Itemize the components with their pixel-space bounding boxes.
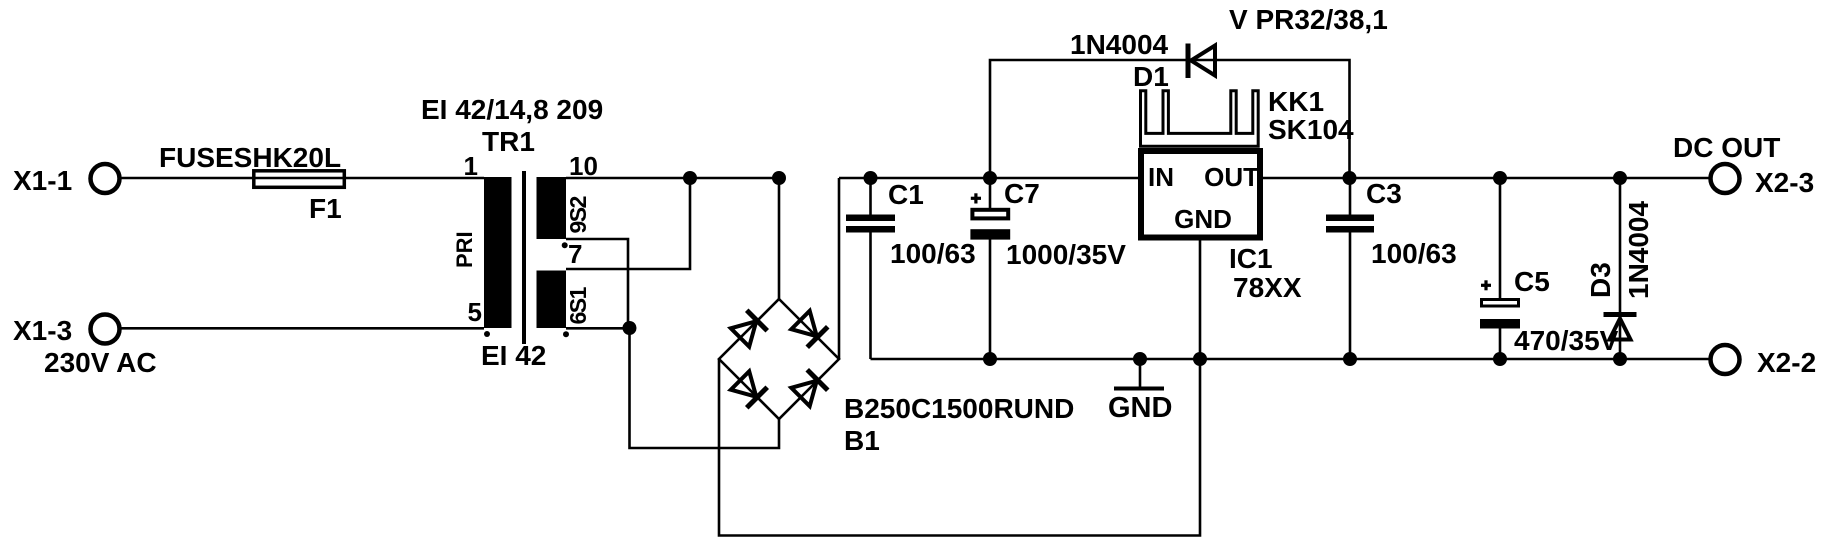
svg-text:EI 42/14,8 209: EI 42/14,8 209: [421, 94, 603, 125]
svg-text:C5: C5: [1514, 266, 1550, 297]
svg-text:V PR32/38,1: V PR32/38,1: [1229, 4, 1388, 35]
heatsink KK1: [1141, 86, 1355, 146]
svg-text:IC1: IC1: [1229, 243, 1273, 274]
terminal X2-2: [1711, 345, 1817, 378]
svg-text:OUT: OUT: [1204, 162, 1259, 192]
svg-text:D3: D3: [1585, 262, 1616, 298]
wire pin7: [566, 178, 690, 269]
svg-text:1N4004: 1N4004: [1623, 200, 1654, 299]
junction D3 top: [1613, 171, 1627, 185]
junction bridge top: [772, 171, 786, 185]
bridge diode upper-left: [730, 310, 767, 347]
diode D3 wire: [1619, 178, 1622, 359]
svg-text:EI 42: EI 42: [481, 340, 546, 371]
svg-text:F1: F1: [309, 193, 342, 224]
svg-text:GND: GND: [1108, 392, 1172, 424]
svg-text:X1-1: X1-1: [13, 165, 72, 196]
bridge diode upper-right: [790, 310, 827, 347]
junction C5 bottom: [1493, 352, 1507, 366]
wire X1-3 to TR1 pin5: [121, 327, 484, 330]
TR1 secondary winding S2: [537, 177, 567, 239]
svg-text:9S2: 9S2: [565, 196, 591, 233]
wire X1-1 to fuse to TR1 pin1: [121, 177, 484, 180]
ground rail: [871, 358, 1710, 361]
svg-text:SK104: SK104: [1268, 114, 1354, 145]
transformer TR1: [421, 94, 603, 371]
terminal X1-1: [13, 164, 120, 196]
svg-text:1N4004: 1N4004: [1070, 29, 1169, 60]
bridge diode lower-left: [730, 370, 767, 407]
junction D3 bottom: [1613, 352, 1627, 366]
svg-text:PRI: PRI: [452, 231, 477, 268]
capacitor C1: [846, 178, 976, 359]
svg-text:GND: GND: [1174, 204, 1232, 234]
regulator IC1: [1141, 151, 1302, 303]
junction C5 top: [1493, 171, 1507, 185]
bridge diode lower-right: [790, 370, 827, 407]
svg-text:10: 10: [569, 151, 598, 181]
svg-text:B1: B1: [844, 425, 880, 456]
svg-text:1: 1: [464, 151, 478, 181]
svg-text:100/63: 100/63: [890, 238, 976, 269]
terminal X1-3: [13, 315, 157, 379]
capacitor C7: [970, 178, 1126, 359]
diode D3: [1585, 200, 1654, 339]
wire pin6: [566, 327, 630, 330]
TR1 primary winding: [484, 177, 512, 328]
svg-text:6S1: 6S1: [565, 286, 591, 324]
wire DC+ rail to IC IN: [839, 177, 1138, 180]
svg-text:IN: IN: [1148, 162, 1174, 192]
svg-text:X2-3: X2-3: [1755, 167, 1814, 198]
wire IC1 GND lead: [1199, 240, 1202, 359]
ground symbol: [1108, 359, 1172, 424]
bridge rectifier B1 diamond: [719, 299, 839, 419]
junction C1 top: [864, 171, 878, 185]
svg-text:1000/35V: 1000/35V: [1006, 239, 1126, 270]
svg-text:D1: D1: [1133, 61, 1169, 92]
phase dot S1: [563, 331, 569, 337]
wire bridge top drop: [778, 178, 781, 299]
TR1 secondary winding S1: [537, 271, 567, 329]
svg-text:TR1: TR1: [482, 126, 535, 157]
wire OUT rail: [1263, 177, 1709, 180]
diode D1 wire: [990, 60, 1350, 178]
svg-text:7: 7: [568, 239, 582, 269]
junction C7 top: [983, 171, 997, 185]
svg-text:5: 5: [468, 297, 482, 327]
svg-text:X2-2: X2-2: [1757, 347, 1816, 378]
svg-text:DC OUT: DC OUT: [1673, 132, 1780, 163]
junction GND stub: [1133, 352, 1147, 366]
svg-text:X1-3: X1-3: [13, 315, 72, 346]
svg-text:470/35V: 470/35V: [1514, 325, 1619, 356]
svg-text:C3: C3: [1366, 178, 1402, 209]
junction pin7/pin10: [683, 171, 697, 185]
junction C3 bottom: [1343, 352, 1357, 366]
diode D1: [1070, 29, 1215, 92]
svg-text:C1: C1: [888, 179, 924, 210]
svg-text:FUSESHK20L: FUSESHK20L: [159, 142, 341, 173]
capacitor C5: [1480, 178, 1619, 359]
TR1 core: [522, 171, 526, 344]
junction C7 bottom: [983, 352, 997, 366]
junction C3/D1 top: [1343, 171, 1357, 185]
phase dot S2: [562, 242, 568, 248]
svg-text:78XX: 78XX: [1233, 272, 1302, 303]
svg-text:B250C1500RUND: B250C1500RUND: [844, 393, 1074, 424]
fuse F1: [159, 142, 344, 224]
phase dot primary: [484, 331, 490, 337]
svg-text:100/63: 100/63: [1371, 238, 1457, 269]
terminal X2-3: [1673, 132, 1814, 198]
capacitor C3: [1326, 178, 1457, 359]
svg-text:230V AC: 230V AC: [44, 347, 157, 378]
junction IC GND / loop: [1193, 352, 1207, 366]
svg-text:C7: C7: [1004, 178, 1040, 209]
wire secondary to bridge bottom: [630, 328, 780, 448]
junction pin9/pin6: [623, 321, 637, 335]
wire bridge minus loop: [719, 359, 1200, 536]
wire bridge plus riser: [838, 178, 841, 359]
wire pin10 to bridge top: [566, 177, 779, 180]
wire pin9: [566, 239, 628, 328]
svg-text:KK1: KK1: [1268, 86, 1324, 117]
